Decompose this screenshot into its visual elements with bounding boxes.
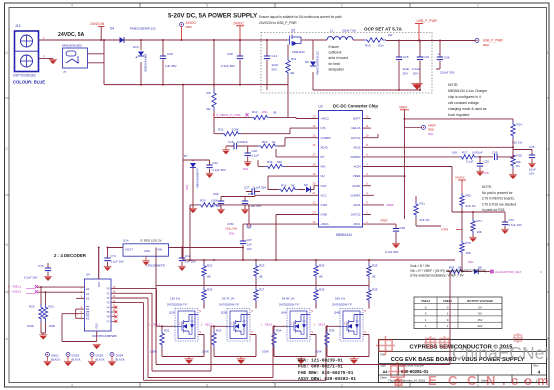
resistor R21b [41,304,48,333]
svg-text:OUTC1: OUTC1 [351,213,361,217]
svg-text:2W: 2W [388,33,393,37]
capacitor C66 [436,41,443,70]
wire U14 vin rail [169,248,244,261]
svg-text:BLACK: BLACK [96,357,105,361]
svg-text:0.1uF 50V: 0.1uF 50V [253,186,266,190]
svg-text:Vfb = R * VREF / (91+R) Where: Vfb = R * VREF / (91+R) Where R(R26/R27/… [410,269,486,273]
ground C18 [243,162,252,171]
svg-text:R14: R14 [517,123,523,127]
capacitor C71 [104,248,112,271]
diode D6 [306,186,319,193]
svg-text:2N7002DW-7-F: 2N7002DW-7-F [279,303,299,307]
inductor L1 [327,29,356,41]
svg-text:R28: R28 [319,288,325,292]
resistor R20 [39,304,43,333]
label D10 [133,45,139,49]
resistor R28 [314,286,318,309]
svg-text:Q3B: Q3B [221,311,227,315]
capacitor C67 [240,241,246,260]
svg-text:0.1uF 10V: 0.1uF 10V [24,276,37,280]
capacitor C73 [501,212,509,234]
svg-text:24VDCIN to USB_P_PWR: 24VDCIN to USB_P_PWR [259,21,297,25]
wire ground rail [104,84,288,86]
label C49 [221,52,236,68]
no-connect Y7 [111,320,117,323]
wire ADJ2 net [363,139,514,152]
svg-text:R15: R15 [262,140,268,144]
wire gnd trunk x183 [183,85,210,165]
net label VREF INC1 [380,219,388,223]
svg-text:R71: R71 [477,219,483,223]
label C69 [210,192,221,208]
svg-text:R25: R25 [372,264,378,268]
svg-text:VREF: VREF [353,174,361,178]
svg-text:0E: 0E [207,107,211,111]
label R18 [516,154,523,169]
svg-text:DNL: DNL [185,184,189,190]
svg-text:C14: C14 [272,54,278,58]
svg-text:10V: 10V [247,247,252,251]
resistor R23 [254,260,258,286]
test point GND1 [43,353,60,366]
svg-text:L1: L1 [330,29,334,33]
resistor R27 [254,286,258,309]
label D5 part [316,51,320,75]
resistor R35 [325,326,329,356]
label PMEG3050EP,115 [130,27,156,31]
svg-text:buck regulator.: buck regulator. [448,113,470,117]
svg-text:10m: 10m [378,44,384,48]
svg-text:R29: R29 [372,288,378,292]
svg-text:R16: R16 [267,160,273,164]
net label VSEL2 [8,290,38,294]
label R27 [222,288,265,301]
diode D7 zener [189,163,197,213]
wire COMP1 stub [363,194,375,196]
svg-text:50V: 50V [272,68,277,72]
svg-text:FDD4141: FDD4141 [292,50,305,54]
resistor R32 [160,326,164,356]
ground Q3A source [185,357,194,364]
svg-text:100K: 100K [232,128,239,132]
svg-text:CVM: CVM [321,203,328,207]
label R29 [335,288,378,301]
wire VCC net [221,195,319,196]
junction dots top rail [100,39,268,86]
transistor Q4A [287,309,310,342]
svg-text:SMBJ24A-TR: SMBJ24A-TR [144,53,148,72]
label R71 [477,219,483,234]
diode D4 [116,37,128,43]
svg-text:24VDCIN: 24VDCIN [90,22,105,26]
label R72 [466,241,475,264]
svg-text:J12: J12 [15,24,21,28]
label R24 [319,264,325,279]
svg-text:91K 1%: 91K 1% [420,218,431,222]
capacitor C27 [244,186,266,195]
capacitor C79 [44,263,52,281]
svg-text:COMP2: COMP2 [350,155,361,159]
svg-text:D5: D5 [305,60,309,64]
resistor R13 [214,117,290,135]
svg-text:DNL: DNL [468,260,474,264]
svg-text:R17: R17 [462,151,468,155]
ground R20 R21 [39,333,47,339]
label COLOUR: BLUE [13,80,45,85]
svg-text:0E: 0E [259,275,263,279]
svg-text:SEL3: SEL3 [265,322,272,326]
svg-text:area in board: area in board [329,56,349,60]
note ensure layout [259,15,342,25]
svg-text:cell constant voltage: cell constant voltage [448,101,479,105]
svg-text:VREF: VREF [399,106,408,110]
svg-text:sufficient: sufficient [329,51,342,55]
svg-text:C75: C75 [529,145,535,149]
svg-text:DNL: DNL [484,171,490,175]
label 2 : 4 DECODER [54,253,87,258]
svg-text:chip is configured in 4: chip is configured in 4 [448,95,481,99]
svg-text:2N7002DW-7-F: 2N7002DW-7-F [332,303,352,307]
test point GND4 [108,353,125,366]
svg-text:OCP SET AT 5.7A: OCP SET AT 5.7A [364,27,403,32]
pin numbers Q3B [231,310,254,334]
label 24VDC RED [186,21,197,29]
wire 24V drop x214 [213,40,215,89]
svg-text:0.001uF: 0.001uF [472,151,483,155]
svg-text:MB39A134: MB39A134 [336,233,352,237]
svg-text:GND: GND [144,249,150,253]
svg-text:VOUT: VOUT [125,248,133,252]
svg-text:0E: 0E [291,71,295,75]
svg-text:PCB: 600-60271-01: PCB: 600-60271-01 [298,365,343,370]
svg-text:DNL: DNL [229,232,235,236]
resistor R29 [367,286,371,309]
svg-text:R32: R32 [164,329,170,333]
wire source Q3A [162,335,204,357]
svg-text:USB_P_PWR: USB_P_PWR [417,19,438,23]
svg-text:Q3A: Q3A [169,311,175,315]
net label SEL1 [149,322,160,326]
transistor Q3B [227,309,250,342]
svg-text:N: N [486,373,495,388]
net label V3P3 [441,228,462,232]
net label VREF ADJ1 [386,203,394,207]
wire CVM net [190,203,319,260]
label R62 [466,194,477,209]
wire main 24V rail [39,39,288,41]
svg-text:R18: R18 [517,154,523,158]
svg-text:OUT: OUT [321,184,327,188]
junction dot gate Q3B [213,325,215,327]
label Q3B [219,303,239,315]
label C15b [228,140,248,144]
svg-text:Y4: Y4 [106,305,110,309]
svg-text:0E: 0E [372,275,376,279]
svg-text:VSEL2: VSEL2 [421,299,431,303]
svg-text:3: 3 [206,4,208,8]
svg-text:VIN: VIN [157,248,162,252]
svg-text:1K: 1K [272,140,276,144]
svg-text:C23: C23 [248,192,254,196]
net label VSEL1 [8,285,38,289]
svg-text:DC-DC Converter Chip: DC-DC Converter Chip [333,104,378,109]
test point 24VDC RED [180,23,184,41]
capacitor C22 [206,165,214,178]
junction dots U3 right [404,118,515,273]
resistor R24 [314,260,318,286]
label R17 [452,151,498,155]
wire GND net [276,215,319,261]
wire output rail [386,40,475,42]
svg-text:0.1uF 50V: 0.1uF 50V [221,64,236,68]
svg-text:C40: C40 [167,52,173,56]
svg-text:10K: 10K [466,251,471,255]
wire VSEL2 to A1 [38,292,84,304]
table output voltage [414,297,502,329]
svg-text:R23: R23 [259,264,265,268]
svg-text:VSEL2: VSEL2 [12,290,22,294]
wire +INC2 net [288,85,319,119]
svg-text:1uF 35V: 1uF 35V [185,260,196,264]
capacitor C18 [245,146,251,162]
capacitor C75 [513,150,536,168]
label Q4A [279,303,299,315]
test point GND3 [88,353,105,366]
wire source Q3B [214,335,256,357]
svg-text:R22: R22 [207,264,213,268]
svg-text:D6: D6 [304,183,308,187]
svg-text:91K 1%: 91K 1% [335,297,346,301]
svg-text:0.1uF: 0.1uF [252,154,260,158]
svg-text:100K: 100K [202,350,209,354]
resistor R63 [447,269,472,273]
junction dots rail260 [189,259,370,261]
svg-text:E: E [428,373,437,388]
svg-text:5V: 5V [478,305,482,309]
svg-text:15V: 15V [477,318,482,322]
test point VREF RED [405,124,437,137]
svg-text:C22: C22 [213,161,219,165]
svg-text:24VDC: 24VDC [455,176,466,180]
wire decoder vcc [98,248,100,280]
svg-text:D7: D7 [184,154,188,158]
svg-text:D4: D4 [110,27,114,31]
svg-text:o: o [524,373,532,388]
label C28 [385,226,405,254]
svg-text:2: 2 [341,4,343,8]
resistor R12 [251,115,270,119]
wire ADJ1 net [363,204,385,206]
no-connect Y5 [111,311,117,314]
wire COMP2 net [363,156,460,158]
label R33 [202,329,222,354]
svg-text:COMP3: COMP3 [321,136,332,140]
label C18 [252,149,260,158]
svg-text:SEL4: SEL4 [318,322,325,326]
svg-text:Y0: Y0 [106,287,110,291]
svg-text:C18: C18 [252,149,258,153]
ground rail in OCP box [313,89,420,91]
svg-text:0.1uF: 0.1uF [412,67,420,71]
svg-text:BLACK: BLACK [72,357,81,361]
svg-text:RED: RED [186,25,193,29]
svg-text:100K: 100K [262,350,269,354]
svg-text:CELLS: CELLS [351,126,360,130]
wire left trunk [155,248,157,365]
wire source Q4A [274,335,316,357]
wire VSEL1 to A0 [38,287,84,304]
svg-text:R19: R19 [281,184,287,188]
svg-text:U4: U4 [86,273,90,277]
label D5 [305,60,309,64]
svg-text:91K 1%: 91K 1% [466,204,477,208]
svg-text:R21: R21 [420,202,426,206]
label R25 [372,264,378,279]
label D6 [304,183,308,187]
label R63 [449,266,482,270]
note MB39A134 [448,83,488,117]
resistor R16 [258,160,319,169]
svg-text:10uF: 10uF [272,63,279,67]
label C79 [24,264,44,280]
label C66 [440,56,455,75]
svg-text:VCC: VCC [98,282,101,287]
label C75 [529,145,536,176]
svg-text:R24: R24 [319,264,325,268]
decoder U4 [81,273,118,339]
svg-text:100K: 100K [27,324,34,328]
title 5-20V DC 5A POWER SUPPLY [168,13,258,20]
label C12 [185,254,196,264]
label R14 [512,123,523,145]
svg-text:24VDC: 24VDC [233,22,244,26]
svg-text:VH: VH [321,174,325,178]
svg-text:1uF 35V: 1uF 35V [165,64,178,68]
svg-text:+INC1: +INC1 [321,222,330,226]
svg-text:2 : 4 DECODER: 2 : 4 DECODER [54,253,87,258]
no-connect Y4 [111,306,117,309]
wire Y1 net [111,293,227,371]
svg-text:GND: GND [321,213,327,217]
label R35 [315,329,335,354]
svg-text:C: C [467,373,477,388]
resistor R19 [268,187,305,191]
svg-text:VSEL1: VSEL1 [12,285,22,289]
resistor R21 [414,196,441,226]
net label 24VDC right [455,176,466,194]
wire jack pins [88,40,105,85]
svg-text:SMAJ5929B-FP: SMAJ5929B-FP [196,168,200,188]
svg-text:C66: C66 [444,56,450,60]
resistor R17 [459,155,493,159]
pin numbers Q3A [179,310,202,334]
label R6 [207,91,211,111]
wire drain Q3A [203,303,205,309]
svg-text:C75 & R18 are stacked: C75 & R18 are stacked [482,202,516,206]
wire bottom bus [156,272,450,365]
svg-text:A1: A1 [86,292,90,296]
svg-text:ADJ1: ADJ1 [353,203,360,207]
wire L1 to R10 [353,39,364,41]
svg-text:10uH 7.5A: 10uH 7.5A [342,29,356,33]
svg-text:10K: 10K [452,151,457,155]
label C23 [248,192,261,208]
wire VH net [268,176,319,189]
svg-text:Q4B: Q4B [334,311,340,315]
svg-text:2N7002DW-7-F: 2N7002DW-7-F [167,303,187,307]
svg-text:PCA: 121-60239-01: PCA: 121-60239-01 [298,359,343,364]
svg-text:YELLOW: YELLOW [225,227,237,231]
svg-text:C73: C73 [509,218,515,222]
svg-text:IC RED LDO 5V: IC RED LDO 5V [140,239,162,243]
svg-text:C67: C67 [247,238,253,242]
wire A2 stub [76,297,84,299]
wire decoder gnd [93,331,101,349]
capacitor C12 [178,248,186,271]
capacitor C14 [264,40,270,90]
wire drain Q4A [315,303,317,309]
label R21 [420,202,431,223]
svg-text:.: . [502,373,506,388]
svg-text:0E: 0E [273,111,277,115]
svg-text:Ensure layout is suitable for: Ensure layout is suitable for 5A continu… [259,15,342,19]
label C15 [403,55,410,76]
svg-text:No pad is present for: No pad is present for [482,191,514,195]
capacitor C49 [237,40,243,85]
wire J12 pin2 to ground [39,58,54,60]
wire VREF trunk [363,110,514,219]
wire 6V rail [183,160,455,260]
svg-text:ADJ3: ADJ3 [321,145,328,149]
svg-text:U14: U14 [123,239,129,243]
svg-text:LT8L05AB/TR: LT8L05AB/TR [146,264,166,268]
svg-text:CD74HC238PWR: CD74HC238PWR [92,334,118,338]
svg-text:Q4A: Q4A [281,311,287,315]
resistor R10 [364,38,386,42]
resistor R72 [460,212,464,272]
svg-text:C79: C79 [38,264,44,268]
svg-text:Y2: Y2 [106,296,110,300]
svg-text:BLACK: BLACK [51,357,60,361]
svg-text:U3: U3 [319,105,323,109]
wire Y2 net [111,298,287,378]
transistor Q4B [340,309,363,342]
label 24VDC, 5A [58,32,84,38]
svg-text:2: 2 [341,383,343,387]
svg-text:ADJ2: ADJ2 [353,145,360,149]
label R16 [267,160,282,164]
note Vout formula [410,264,486,278]
ground Q3B source [237,357,246,364]
svg-text:SEL1: SEL1 [153,322,160,326]
resistor R34 [272,326,276,356]
pin 2 J12 [43,54,45,58]
svg-text:C49: C49 [227,52,233,56]
label R10 [365,33,393,48]
wire 24VDC stub [239,26,241,40]
svg-text:DNL: DNL [243,167,249,171]
svg-text:Y6: Y6 [106,315,110,319]
svg-text:C15: C15 [228,140,234,144]
svg-text:E3: E3 [86,316,90,320]
ground OCP [411,83,423,90]
svg-text:0.1uF 50V: 0.1uF 50V [385,250,398,254]
svg-text:m: m [537,373,549,388]
svg-text:R72: R72 [466,241,472,245]
svg-text:Vout = 8 * Vfb: Vout = 8 * Vfb [410,264,430,268]
wire U14 vout rail [99,248,123,280]
wire source Q4B [327,335,369,357]
